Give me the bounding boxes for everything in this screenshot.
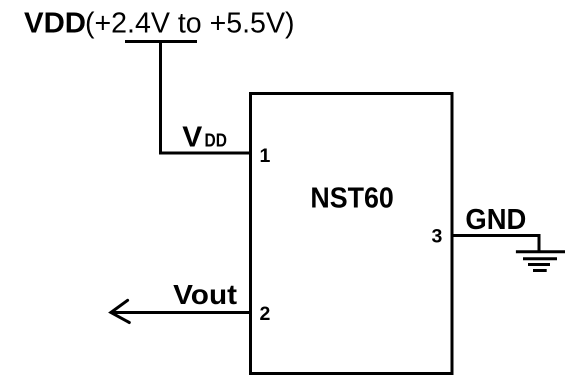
VDD supply rail bar	[125, 40, 197, 43]
wire: pin 3 to ground	[452, 236, 539, 253]
svg-text:DD: DD	[205, 130, 227, 151]
pin label VDD (pin 1)	[182, 122, 227, 154]
net label VDD supply (+2.4V to +5.5V)	[24, 8, 295, 40]
svg-text:3: 3	[432, 226, 443, 248]
svg-text:VDD: VDD	[24, 8, 86, 40]
svg-text:1: 1	[260, 145, 271, 167]
arrowhead Vout (open chevron)	[111, 300, 129, 322]
svg-text:2: 2	[260, 303, 271, 325]
IC U1 NST60 body	[251, 94, 453, 374]
svg-text:V: V	[182, 122, 203, 154]
ground symbol	[516, 252, 565, 271]
wire: VDD rail down to pin 1	[161, 42, 251, 154]
svg-text:NST60: NST60	[310, 183, 393, 215]
svg-text:(+2.4V to +5.5V): (+2.4V to +5.5V)	[85, 8, 295, 40]
svg-text:GND: GND	[465, 204, 526, 236]
svg-text:Vout: Vout	[173, 279, 237, 310]
wire: pin 2 output	[111, 311, 250, 314]
